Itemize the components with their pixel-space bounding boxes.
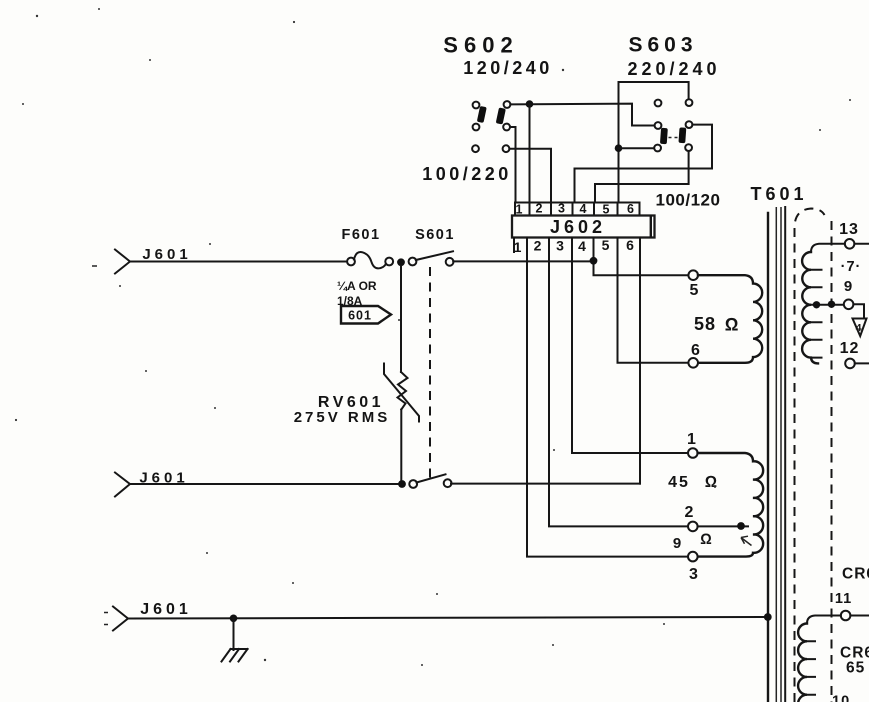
wire J602 pin4(lower) to winding pin5 [594,238,689,276]
svg-text:11: 11 [835,591,852,607]
svg-text:275V RMS: 275V RMS [294,409,391,426]
svg-text:12: 12 [840,340,860,357]
wire secondary tap to pin 9 [811,304,844,306]
svg-text:S601: S601 [415,227,455,243]
transformer T601 core line 3 [780,207,782,702]
switch S602 wiper bar left [477,106,487,123]
wire S601 pole1 to J602 junction [453,260,593,262]
svg-text:65: 65 [846,660,865,677]
wire RV601 branch upper [400,266,402,372]
wire pin11 stub right [850,615,869,617]
wire pin12 stub right [855,362,869,364]
transformer T601 primary pin 1 [688,448,698,458]
junction node ground stub [230,615,238,623]
svg-text:·7·: ·7· [841,259,862,275]
svg-text:J601: J601 [140,601,192,618]
callout 601 pentagon [341,306,391,324]
svg-text:5: 5 [690,282,699,299]
label 9 ohm [673,531,712,552]
svg-text:100/220: 100/220 [422,164,512,184]
svg-text:6: 6 [691,342,700,359]
connector J601 line 1 chevron [92,250,130,274]
switch S601 pole 1 [409,251,454,265]
svg-text:120/240: 120/240 [463,58,553,78]
svg-text:2: 2 [685,504,694,521]
svg-text:S603: S603 [628,34,697,57]
svg-text:1: 1 [514,239,522,255]
junction node ground to shield [764,613,772,621]
svg-text:3: 3 [556,238,564,254]
pin numbers J602 lower row [514,237,635,255]
switch S602 wiper bar right [496,107,506,124]
junction node tap dot 1 [813,301,820,308]
svg-text:Ω: Ω [725,315,739,335]
transformer T601 core line 2 [775,207,777,702]
svg-text:220/240: 220/240 [627,59,720,79]
transformer T601 primary winding 45 ohm [697,453,763,557]
svg-text:T601: T601 [750,184,807,204]
wire pin2 to winding tap [698,525,748,527]
wire J602 pin6(lower) riser to S601 pole2 [639,238,641,484]
switch S603 wiper bar left [660,128,668,144]
svg-text:F601: F601 [341,227,380,243]
label 45 ohm [668,474,717,491]
transformer T601 primary winding 58 ohm [698,275,762,363]
wire S602 bottom contact to J602 pin3 [509,149,551,203]
wire junction to S603 bottom-left contact [619,147,655,149]
transformer T601 core line 1 (shield, grounded) [767,213,769,702]
svg-text:5: 5 [602,237,610,253]
transformer T601 core line 4 [784,207,786,702]
svg-text:9: 9 [673,535,681,552]
svg-text:¼A OR: ¼A OR [337,279,377,293]
wire S603 middle-right contact to J602 pin3 (line A) [575,125,713,203]
transformer T601 secondary pin 9 [844,300,854,310]
transformer T601 secondary pin 11 [841,611,851,621]
connector J601 line 2 chevron [115,473,130,497]
switch S603 wiper bar right [678,127,686,143]
wire S602 top contact to junction and S603 [510,104,654,126]
wire pin11 to lower secondary winding [807,616,841,624]
svg-text:58: 58 [694,314,716,334]
junction node tap dot 2 [828,301,835,308]
switch S602 contacts [472,101,510,152]
svg-text:4: 4 [578,238,586,254]
svg-text:13: 13 [839,221,859,238]
label 58 ohm [694,314,739,335]
wire J602 pin3(lower) to winding pin1 [572,238,688,454]
svg-text:45: 45 [668,474,690,491]
wire ground bus J601 line3 to shield [128,617,768,619]
svg-text:1: 1 [687,431,696,448]
tap arrow on 45 ohm winding [741,536,752,545]
transformer T601 secondary pin 13 [845,239,855,249]
wire S603 bottom-right contact to J602 pin4 (line B) [595,151,689,203]
junction node S601 pole1 / J602 pin4 [590,257,598,265]
svg-text:2: 2 [534,238,542,254]
svg-text:4: 4 [856,322,862,334]
svg-text:Ω: Ω [705,474,717,491]
junction node fuse/RV601 [397,258,405,266]
svg-text:9: 9 [844,278,852,295]
svg-text:Ω: Ω [700,531,712,548]
wire J601 line1 to fuse [130,261,347,263]
wire J601 line2 [130,483,398,485]
svg-text:6: 6 [626,237,634,253]
transformer T601 primary pin 2 [688,522,698,532]
ground chassis symbol [222,619,248,662]
switch S601 pole 2 [409,474,451,488]
junction node RV601/S601 pole2 [398,480,406,488]
wire J602 pin1(lower) to winding pin3 [527,238,688,557]
svg-text:6: 6 [627,202,634,216]
svg-text:601: 601 [348,309,372,323]
wire pin13 to secondary winding [811,244,845,252]
shield dashed line with dome [795,209,825,702]
wire S603 220/240 loop to J602 pin5 riser [619,82,689,203]
transformer T601 secondary winding lower [798,624,815,702]
transformer T601 secondary winding upper [802,252,821,363]
svg-text:CR6: CR6 [842,566,869,583]
wire pin13 stub right [854,243,869,245]
varistor RV601 [384,364,419,422]
callout triangle 4 [853,319,867,337]
transformer T601 primary pin 6 [688,358,698,368]
wire pin9 to callout [853,304,864,318]
wire riser junction to J602 pin2 [529,104,531,203]
wire S602 middle contact to J602 pin1 [510,127,516,203]
wire RV601 branch lower [400,410,402,482]
svg-text:10: 10 [832,694,850,702]
wire J602 pin2(lower) to winding pin2 [549,238,688,527]
mechanical link dashed S601 [429,267,431,478]
transformer T601 primary pin 3 [688,552,698,562]
junction node S603 left riser [615,144,623,152]
svg-text:4: 4 [580,202,587,216]
svg-text:100/120: 100/120 [656,191,721,210]
mechanical link dashed S603 bars [669,137,678,139]
pin numbers J602 upper row [516,202,635,217]
svg-text:2: 2 [536,202,543,216]
svg-text:J602: J602 [550,217,606,237]
svg-text:3: 3 [558,202,565,216]
connector J602 upper pin row [515,203,640,216]
connector J601 line 3 chevron (ground input) [104,607,128,631]
svg-text:S602: S602 [443,33,518,58]
fuse F601 [347,252,393,268]
junction node S602 top / J602 pin2 [526,100,534,108]
connector J602 lower pin row [513,238,515,253]
wire S601 pole2 to J602 pin6 riser [451,483,640,485]
wire J602 pin5(lower) to winding pin6 [618,238,689,363]
svg-text:3: 3 [689,566,698,583]
transformer T601 primary pin 5 [688,270,698,280]
shield dashed line right [831,221,833,702]
svg-text:J601: J601 [142,246,191,263]
junction node winding tap at pin2 [737,522,745,530]
transformer T601 secondary pin 12 [845,359,855,369]
connector J602 body [512,216,655,238]
switch S603 contacts [654,99,692,151]
